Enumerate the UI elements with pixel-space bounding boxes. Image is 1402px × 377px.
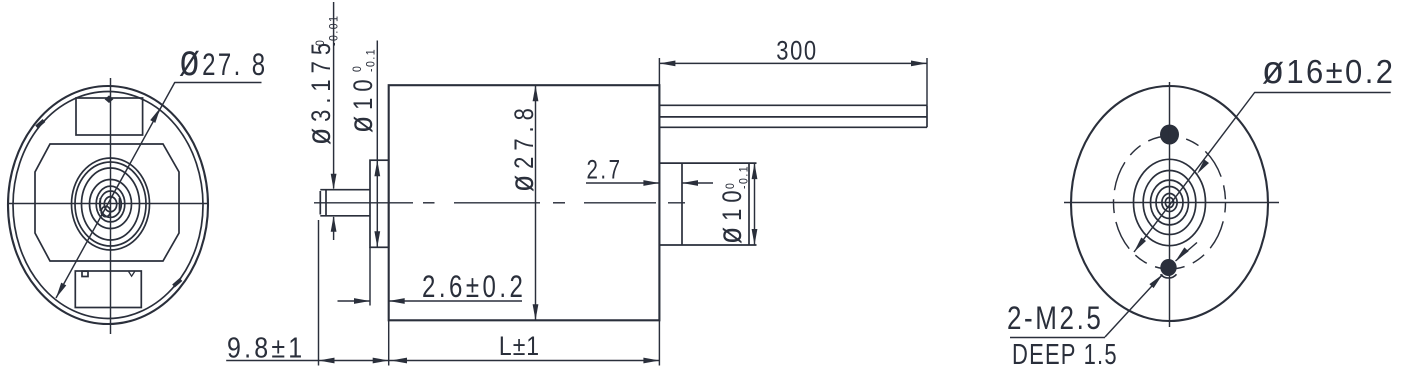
svg-text:2-M2.5: 2-M2.5 — [1007, 300, 1103, 336]
svg-text:-0.1: -0.1 — [738, 165, 751, 189]
svg-text:0: 0 — [725, 182, 738, 189]
svg-text:ø10: ø10 — [342, 73, 380, 133]
svg-text:300: 300 — [776, 37, 817, 67]
svg-text:2.6±0.2: 2.6±0.2 — [422, 269, 526, 304]
svg-text:0: 0 — [352, 65, 365, 72]
svg-text:ø10: ø10 — [711, 184, 749, 244]
svg-text:ø27.8: ø27.8 — [503, 102, 541, 192]
svg-text:0: 0 — [315, 39, 328, 46]
svg-text:L±1: L±1 — [499, 331, 540, 361]
svg-text:ø16±0.2: ø16±0.2 — [1262, 48, 1395, 91]
svg-text:2.7: 2.7 — [587, 155, 623, 185]
svg-text:-0.1: -0.1 — [365, 48, 378, 72]
svg-text:ø3.175: ø3.175 — [300, 37, 338, 145]
svg-text:ø27. 8: ø27. 8 — [179, 36, 268, 86]
svg-text:DEEP 1.5: DEEP 1.5 — [1012, 339, 1118, 370]
svg-text:9.8±1: 9.8±1 — [227, 332, 305, 364]
svg-text:-0.01: -0.01 — [328, 15, 341, 46]
